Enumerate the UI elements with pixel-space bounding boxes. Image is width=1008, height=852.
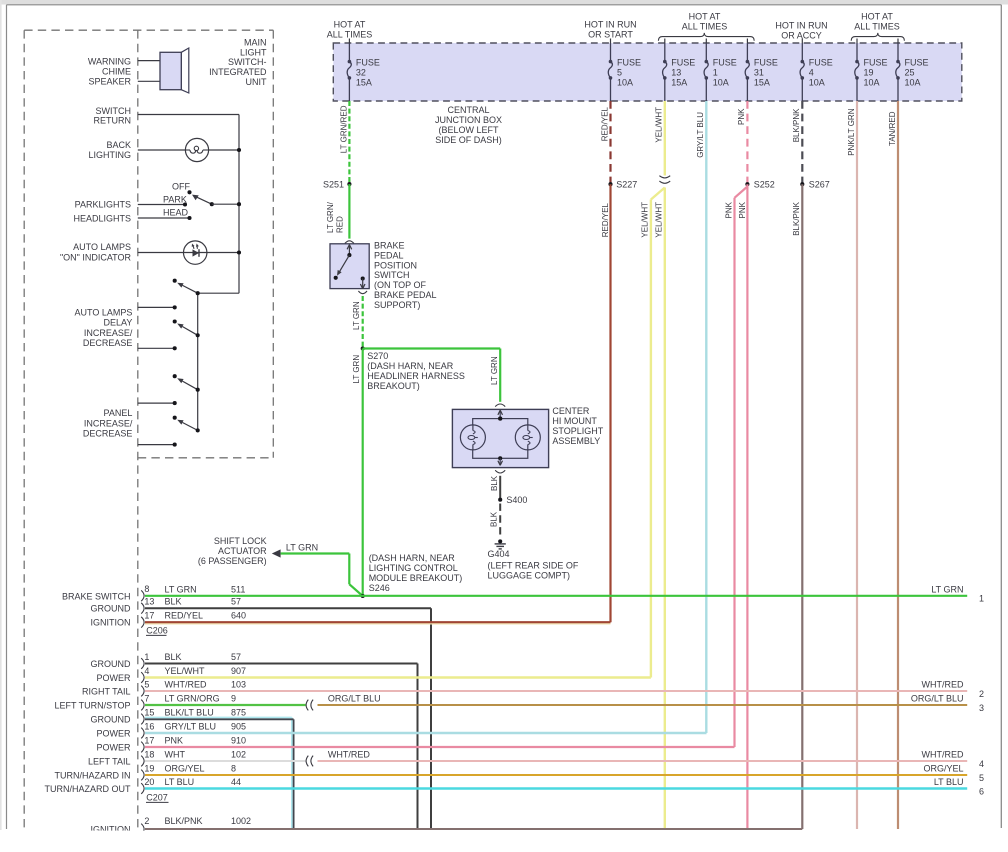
svg-text:OR START: OR START [588,29,633,39]
svg-text:G404: G404 [488,549,510,559]
ground G404 symbol [498,539,502,543]
central junction box (fuse box) [333,43,962,101]
wire indicator [138,252,239,254]
wire row LT BLU 44 [145,787,967,789]
svg-text:LT GRN: LT GRN [931,585,963,595]
svg-text:4: 4 [144,666,149,676]
splice S267 [800,182,804,186]
pin 1 ground [141,658,144,669]
delay lever a [183,285,198,293]
svg-text:15A: 15A [671,78,687,88]
svg-text:LIGHT: LIGHT [240,47,267,57]
wire YEL/WHT from fuse 13 [664,101,666,176]
svg-text:POWER: POWER [96,729,131,739]
wire LT GRN dashed below switch [362,296,364,349]
svg-text:LIGHTING: LIGHTING [88,150,131,160]
svg-text:RED/YEL: RED/YEL [601,202,610,237]
fuse 32 15A [348,39,350,44]
break symbol row 18 [306,756,308,767]
svg-text:HOT IN RUN: HOT IN RUN [584,20,636,30]
brake switch pin arrow up [348,245,350,255]
LED indicator [184,241,207,264]
brace over fuses 19,25 [851,33,904,41]
svg-text:FUSE: FUSE [617,57,641,67]
svg-text:CENTRAL: CENTRAL [447,105,489,115]
svg-text:DECREASE: DECREASE [83,338,133,348]
wire speaker lower [138,80,160,82]
svg-text:WHT/RED: WHT/RED [922,750,964,760]
svg-text:PNK: PNK [165,736,184,746]
delay lever d [183,423,198,431]
junction back lighting [237,148,241,152]
svg-text:10A: 10A [905,78,921,88]
svg-text:31: 31 [754,68,764,78]
wire row BLK/LT BLU 875 [145,717,292,719]
wire parklights [138,204,185,206]
stoplight pin arrow down [499,458,501,464]
svg-text:YEL/WHT: YEL/WHT [641,202,650,238]
svg-text:FUSE: FUSE [905,57,929,67]
svg-text:PNK: PNK [737,108,746,125]
svg-text:FUSE: FUSE [671,57,695,67]
splice S246 [361,594,365,598]
svg-text:1: 1 [144,652,149,662]
splice S227 [608,182,612,186]
svg-text:BREAKOUT): BREAKOUT) [367,381,420,391]
contact OFF [187,190,191,194]
svg-text:5: 5 [617,68,622,78]
svg-text:INCREASE/: INCREASE/ [84,328,133,338]
splice S251 [347,182,351,186]
connector arc stoplight top [495,404,505,407]
svg-text:MAIN: MAIN [244,37,267,47]
svg-text:HI MOUNT: HI MOUNT [552,416,597,426]
svg-text:18: 18 [144,749,154,759]
svg-text:GROUND: GROUND [91,715,131,725]
brace over fuses 13,1,31 [658,33,754,41]
splice S400 [498,498,502,502]
svg-text:"ON" INDICATOR: "ON" INDICATOR [60,252,132,262]
svg-text:PARKLIGHTS: PARKLIGHTS [75,200,131,210]
svg-text:FUSE: FUSE [356,57,380,67]
svg-text:TURN/HAZARD OUT: TURN/HAZARD OUT [45,784,131,794]
svg-text:ASSEMBLY: ASSEMBLY [552,436,600,446]
svg-text:(DASH HARN, NEAR: (DASH HARN, NEAR [367,361,454,371]
svg-text:HEADLIGHTS: HEADLIGHTS [73,214,131,224]
svg-text:19: 19 [864,68,874,78]
brake switch pin down [361,276,365,280]
svg-text:BLK: BLK [490,475,499,491]
fuse 19 10A [856,39,858,44]
svg-text:4: 4 [809,68,814,78]
svg-text:DELAY: DELAY [104,318,133,328]
stoplight inner circuit [473,419,528,459]
wire row WHT/RED 103 [145,690,967,692]
wire row ORG/YEL 8 [145,774,967,776]
svg-text:6: 6 [979,786,984,796]
svg-text:S227: S227 [616,179,637,189]
connector arc brake switch bottom [358,291,367,294]
stoplight bulb right [515,425,540,450]
svg-text:S400: S400 [506,495,527,505]
svg-text:JUNCTION BOX: JUNCTION BOX [435,115,502,125]
contact HEAD [187,216,191,220]
svg-text:1: 1 [713,68,718,78]
svg-text:RETURN: RETURN [94,116,132,126]
svg-text:HOT IN RUN: HOT IN RUN [775,21,827,31]
wire delay contact 3 [138,402,175,404]
fuse 31 15A [746,39,748,44]
svg-text:SIDE OF DASH): SIDE OF DASH) [435,135,502,145]
wire PNK/LT GRN from fuse 19 [856,101,858,829]
wire PNK dashed from fuse 31 [746,101,748,184]
wire LT GRN shift lock [281,552,350,554]
pin 7 left turn/stop [141,700,144,711]
svg-text:102: 102 [231,750,246,760]
svg-text:TAN/RED: TAN/RED [888,111,897,146]
svg-text:3: 3 [979,703,984,713]
svg-text:SHIFT LOCK: SHIFT LOCK [214,536,267,546]
connector arc brake switch top [345,241,354,244]
svg-text:25: 25 [905,68,915,78]
svg-text:511: 511 [231,584,245,594]
svg-text:GRY/LT BLU: GRY/LT BLU [165,722,217,732]
svg-text:FUSE: FUSE [809,57,833,67]
svg-text:HOT AT: HOT AT [861,12,893,22]
pin 18 left tail [141,756,144,767]
svg-text:1002: 1002 [231,816,251,826]
wire delay contact 1 [138,306,175,308]
svg-text:YEL/WHT: YEL/WHT [655,202,664,238]
svg-text:WHT/RED: WHT/RED [922,680,964,690]
svg-text:ALL TIMES: ALL TIMES [682,21,728,31]
wire TAN/RED from fuse 25 [897,101,899,829]
svg-text:BLK: BLK [165,652,182,662]
svg-text:907: 907 [231,666,246,676]
pin 20 turn/hazard out [141,783,144,794]
wire back lighting [138,149,186,151]
svg-text:LEFT TAIL: LEFT TAIL [88,757,131,767]
wire row RED/YEL 640 [145,623,611,625]
rotary switch lever [196,197,212,205]
svg-text:(6 PASSENGER): (6 PASSENGER) [198,556,267,566]
svg-text:PNK: PNK [738,201,747,218]
contact open a [173,279,177,283]
delay switch stem [197,293,199,430]
wire switch return [138,114,239,116]
svg-text:FUSE: FUSE [713,57,737,67]
brake pedal position switch box [330,244,369,289]
wire PNK split [746,184,748,829]
wire RED/YEL solid down [609,184,611,622]
wire GRY/LT BLU from fuse 1 [705,101,707,733]
svg-text:2: 2 [144,816,149,826]
svg-text:19: 19 [144,763,154,773]
wire YEL/WHT split [664,188,666,830]
svg-text:C207: C207 [146,793,168,803]
svg-text:AUTO LAMPS: AUTO LAMPS [73,242,131,252]
svg-text:44: 44 [231,777,241,787]
stoplight bulb left [460,425,485,450]
pin 2 ignition [141,824,144,835]
svg-text:HOT AT: HOT AT [334,20,366,30]
svg-text:OFF: OFF [172,181,190,191]
svg-text:1: 1 [979,594,984,604]
svg-text:HEADLINER HARNESS: HEADLINER HARNESS [367,371,465,381]
svg-text:RED: RED [336,216,345,233]
contact PARK [183,202,187,206]
splice S270 [361,346,365,350]
svg-text:INTEGRATED: INTEGRATED [209,67,267,77]
speaker symbol [181,48,189,93]
svg-text:HOT AT: HOT AT [689,12,721,22]
wire BLK dashed to ground [499,504,501,538]
svg-text:LT GRN: LT GRN [490,356,499,385]
svg-text:S251: S251 [323,179,344,189]
center hi mount stoplight assembly box [452,409,548,467]
svg-text:BRAKE SWITCH: BRAKE SWITCH [62,591,131,601]
svg-text:YEL/WHT: YEL/WHT [655,107,664,143]
junction indicator bus [237,250,241,254]
svg-text:MODULE BREAKOUT): MODULE BREAKOUT) [369,573,463,583]
svg-text:WHT/RED: WHT/RED [328,750,370,760]
svg-text:15A: 15A [754,78,770,88]
svg-text:BLK: BLK [165,597,182,607]
svg-text:SWITCH: SWITCH [374,270,410,280]
svg-text:C206: C206 [146,626,168,636]
contact open d [173,416,177,420]
svg-text:IGNITION: IGNITION [91,618,131,628]
lamp back lighting [185,138,208,161]
svg-text:BRAKE PEDAL: BRAKE PEDAL [374,290,437,300]
fuse 13 15A [664,39,666,44]
wire LT GRN/RED dashed [348,101,350,184]
svg-text:BLK/LT BLU: BLK/LT BLU [165,708,214,718]
svg-text:ALL TIMES: ALL TIMES [854,21,900,31]
svg-text:(LEFT REAR SIDE OF: (LEFT REAR SIDE OF [488,560,579,570]
svg-text:LT GRN/RED: LT GRN/RED [340,105,349,153]
svg-text:5: 5 [144,679,149,689]
fuse 25 10A [897,39,899,44]
pin 13 ground [141,603,144,614]
stoplight top junction [498,417,502,421]
svg-text:RIGHT TAIL: RIGHT TAIL [82,687,131,697]
svg-text:LT GRN/ORG: LT GRN/ORG [165,694,220,704]
svg-text:LUGGAGE COMPT): LUGGAGE COMPT) [488,570,571,580]
svg-text:FUSE: FUSE [754,57,778,67]
svg-text:POWER: POWER [96,673,131,683]
wire LT GRN S270 down to S246 [362,349,364,597]
svg-text:15: 15 [144,707,154,717]
break symbol YEL/WHT [659,176,670,178]
svg-text:ORG/LT BLU: ORG/LT BLU [328,694,381,704]
svg-text:13: 13 [144,597,154,607]
svg-text:10A: 10A [864,78,880,88]
wire row LT GRN/ORG 9 [145,704,306,706]
wire lever to bus [212,203,239,205]
junction lever bus [237,202,241,206]
pin 4 power [141,672,144,683]
svg-text:(ON TOP OF: (ON TOP OF [374,280,427,290]
svg-text:5: 5 [979,773,984,783]
svg-text:POWER: POWER [96,743,131,753]
wire delay contact 4 [138,444,175,446]
svg-text:15A: 15A [356,78,372,88]
svg-text:BLK/PNK: BLK/PNK [792,108,801,142]
pin 19 turn/hazard in [141,770,144,781]
pin 17 power [141,742,144,753]
svg-text:32: 32 [356,68,366,78]
svg-text:DECREASE: DECREASE [83,429,133,439]
svg-text:LT GRN: LT GRN [352,355,361,384]
svg-text:905: 905 [231,722,246,732]
wire row YEL/WHT 907 [145,676,651,678]
svg-text:RED/YEL: RED/YEL [600,106,609,141]
svg-text:7: 7 [144,693,149,703]
svg-text:57: 57 [231,652,241,662]
svg-text:HEAD: HEAD [163,208,189,218]
svg-text:9: 9 [231,694,236,704]
wire row BLK 57 [145,607,431,609]
svg-text:PNK/LT GRN: PNK/LT GRN [847,108,856,155]
svg-text:S252: S252 [754,179,775,189]
svg-text:LEFT TURN/STOP: LEFT TURN/STOP [54,701,130,711]
svg-text:PEDAL: PEDAL [374,250,404,260]
wire bus to delay pivot [198,292,239,294]
svg-text:17: 17 [144,735,154,745]
svg-text:BLK/PNK: BLK/PNK [165,816,203,826]
break symbol row 7 [306,700,308,711]
svg-text:CENTER: CENTER [552,406,590,416]
pin 5 right tail [141,686,144,697]
svg-text:10A: 10A [617,78,633,88]
main light switch-integrated unit boundary [23,30,25,829]
wire RED/YEL dashed from fuse 5 [609,101,611,184]
shift lock arrow [272,549,281,557]
svg-text:8: 8 [231,764,236,774]
svg-text:10A: 10A [809,78,825,88]
stoplight pin arrow up [499,411,501,419]
svg-text:BLK/PNK: BLK/PNK [792,201,801,235]
svg-text:S270: S270 [367,351,388,361]
svg-text:UNIT: UNIT [246,77,267,87]
wire LT GRN S270 to stoplight [363,347,501,349]
svg-text:ACTUATOR: ACTUATOR [218,546,267,556]
svg-text:POSITION: POSITION [374,260,417,270]
svg-text:LT GRN: LT GRN [165,584,197,594]
splice S252 [745,182,749,186]
svg-text:WHT/RED: WHT/RED [165,680,207,690]
svg-text:SWITCH-: SWITCH- [228,57,267,67]
svg-text:BLK: BLK [490,511,499,527]
wire row BLK 57 b [145,663,418,665]
svg-text:4: 4 [979,759,984,769]
svg-text:FUSE: FUSE [864,57,888,67]
wire row WHT 102 [145,760,306,762]
contact open b [173,319,177,323]
svg-text:SWITCH: SWITCH [96,106,132,116]
svg-text:LT GRN/: LT GRN/ [326,201,335,233]
svg-text:GRY/LT BLU: GRY/LT BLU [696,112,705,158]
wire BLK/PNK dashed from fuse 4 [801,101,803,184]
delay lever b [182,327,197,336]
svg-text:GROUND: GROUND [91,659,131,669]
brake switch lever [338,255,349,274]
fuse 4 10A [801,39,803,44]
svg-text:13: 13 [671,68,681,78]
svg-text:SUPPORT): SUPPORT) [374,300,420,310]
wire row BLK/PNK 1002 [145,828,802,830]
svg-text:103: 103 [231,680,246,690]
svg-text:ORG/YEL: ORG/YEL [165,764,205,774]
svg-text:(DASH HARN, NEAR: (DASH HARN, NEAR [369,553,456,563]
wire row GRY/LT BLU 905 [145,732,707,734]
wire internal bus [238,115,240,294]
connector arc stoplight bottom [495,470,505,473]
wire speaker upper [138,60,160,62]
svg-text:AUTO LAMPS: AUTO LAMPS [75,308,133,318]
wire row WHT/RED [318,760,968,762]
svg-text:OR ACCY: OR ACCY [781,30,822,40]
svg-text:640: 640 [231,611,246,621]
pin 17 ignition [141,617,144,628]
pin 16 power [141,728,144,739]
svg-text:20: 20 [144,777,154,787]
svg-text:BRAKE: BRAKE [374,240,405,250]
svg-text:PNK: PNK [724,201,733,218]
fuse 1 10A [705,39,707,44]
svg-text:ORG/YEL: ORG/YEL [923,764,963,774]
svg-text:LT BLU: LT BLU [165,777,195,787]
wire LT GRN solid to switch [348,184,350,239]
svg-text:10A: 10A [713,78,729,88]
svg-text:TURN/HAZARD IN: TURN/HAZARD IN [55,771,131,781]
wire row PNK 910 [145,746,735,748]
svg-text:WHT: WHT [165,750,186,760]
svg-text:CHIME: CHIME [102,67,131,77]
svg-text:RED/YEL: RED/YEL [165,611,204,621]
stoplight bottom junction [498,456,502,460]
svg-text:ORG/LT BLU: ORG/LT BLU [911,694,964,704]
svg-text:LT GRN: LT GRN [286,542,318,552]
svg-text:GROUND: GROUND [91,604,131,614]
svg-text:WARNING: WARNING [88,57,131,67]
svg-text:ALL TIMES: ALL TIMES [327,29,373,39]
svg-text:875: 875 [231,708,246,718]
svg-text:17: 17 [144,611,154,621]
svg-text:STOPLIGHT: STOPLIGHT [552,426,603,436]
wire row LT GRN 511 [145,595,967,597]
svg-text:S267: S267 [809,179,830,189]
svg-text:LIGHTING CONTROL: LIGHTING CONTROL [369,563,458,573]
wire BLK/PNK solid down [801,184,803,829]
contact open c [173,374,177,378]
wire row ORG/LT BLU [318,704,968,706]
wire BLK stoplight to S400 [499,476,501,500]
svg-text:INCREASE/: INCREASE/ [84,419,133,429]
svg-text:LT BLU: LT BLU [934,777,964,787]
svg-text:57: 57 [231,597,241,607]
pin 8 brake switch [141,590,144,601]
wire delay contact 2 [138,347,175,349]
svg-text:8: 8 [144,584,149,594]
svg-text:PARK: PARK [163,195,187,205]
pin 15 ground [141,714,144,725]
svg-text:YEL/WHT: YEL/WHT [165,666,206,676]
svg-text:(BELOW LEFT: (BELOW LEFT [438,125,499,135]
svg-text:LT GRN: LT GRN [352,301,361,330]
delay lever c [182,381,197,390]
